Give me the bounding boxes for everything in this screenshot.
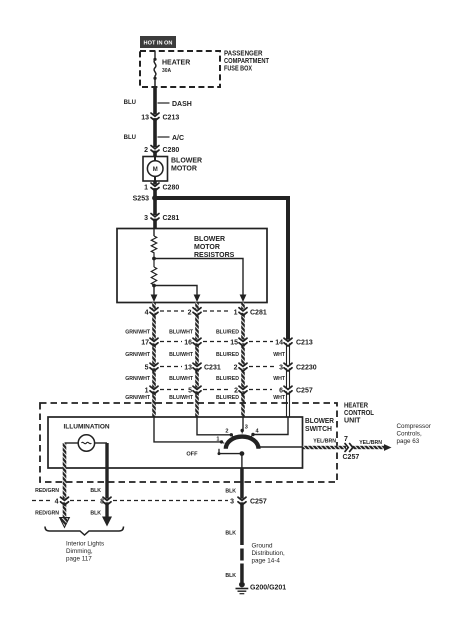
tick A/C — [158, 135, 185, 142]
svg-text:C257: C257 — [343, 454, 360, 461]
switch feed wire 3 — [242, 417, 244, 431]
svg-text:YEL/BRN: YEL/BRN — [313, 439, 336, 445]
svg-text:3: 3 — [230, 499, 234, 506]
svg-text:GRN/WHT: GRN/WHT — [125, 395, 151, 401]
switch feed wire 1 — [154, 417, 222, 442]
svg-text:A/C: A/C — [172, 135, 184, 142]
svg-text:C213: C213 — [163, 115, 180, 122]
arrow to compressor controls — [384, 444, 392, 451]
fuse HEATER 30A — [153, 51, 190, 87]
wire S253 to right and down (BLU thick) — [155, 198, 288, 342]
svg-text:PASSENGER: PASSENGER — [224, 51, 263, 58]
svg-text:3: 3 — [245, 425, 248, 431]
wire BLU fuse to blower motor — [153, 87, 157, 157]
svg-text:Compressor: Compressor — [397, 423, 431, 430]
svg-text:OFF: OFF — [186, 452, 198, 458]
switch feed wire 2 — [197, 417, 231, 435]
wire motor to S253 — [153, 181, 157, 198]
svg-text:HEATER: HEATER — [344, 403, 368, 410]
svg-text:BLU/WHT: BLU/WHT — [169, 330, 194, 336]
svg-text:C213: C213 — [296, 340, 313, 347]
svg-text:BLU/RED: BLU/RED — [216, 376, 239, 382]
connector 3 C281 — [144, 214, 179, 223]
svg-text:WHT: WHT — [273, 395, 286, 401]
connector row C281 — [145, 308, 267, 317]
svg-text:13: 13 — [184, 365, 192, 372]
ground wire segments — [240, 549, 244, 561]
svg-text:15: 15 — [230, 340, 238, 347]
arrow BLK down — [102, 517, 112, 527]
svg-text:C281: C281 — [250, 310, 267, 317]
svg-text:BLK: BLK — [225, 573, 236, 579]
svg-text:8: 8 — [100, 499, 104, 506]
wire labels row 3 — [125, 376, 286, 382]
svg-text:S253: S253 — [133, 196, 149, 203]
svg-text:5: 5 — [188, 388, 192, 395]
connector 13 C213 — [141, 113, 179, 122]
svg-text:C280: C280 — [163, 147, 180, 154]
svg-text:GRN/WHT: GRN/WHT — [125, 330, 151, 336]
svg-text:2: 2 — [234, 388, 238, 395]
connector 7 C257 (horizontal) — [343, 436, 360, 461]
svg-text:BLU: BLU — [124, 135, 136, 141]
label BLOWER SWITCH — [305, 418, 334, 433]
svg-text:MOTOR: MOTOR — [171, 166, 197, 173]
arrow RED/GRN down — [60, 518, 70, 528]
hot in on banner — [140, 36, 176, 48]
passenger compartment fuse box (dashed) — [140, 51, 270, 88]
svg-text:2: 2 — [144, 147, 148, 154]
wire BLK from switch pivot down — [241, 454, 243, 468]
resistor chain — [151, 229, 158, 302]
svg-text:4: 4 — [55, 499, 59, 506]
svg-text:BLU/RED: BLU/RED — [216, 330, 239, 336]
svg-text:C280: C280 — [163, 185, 180, 192]
svg-text:CONTROL: CONTROL — [344, 410, 375, 417]
wire BLK from bulb — [105, 443, 108, 518]
svg-text:BLOWER: BLOWER — [171, 158, 202, 165]
svg-text:3: 3 — [279, 365, 283, 372]
svg-text:RED/GRN: RED/GRN — [35, 511, 59, 517]
wire GRN/WHT column w1 — [152, 303, 156, 418]
svg-text:2: 2 — [234, 365, 238, 372]
svg-text:FUSE BOX: FUSE BOX — [224, 66, 252, 73]
wire BLU/WHT column w2 — [195, 303, 199, 418]
svg-text:M: M — [153, 167, 158, 173]
wire labels row 4 — [125, 395, 286, 401]
svg-text:7: 7 — [344, 436, 348, 443]
heater control unit dashed box — [40, 403, 375, 483]
illumination bulb — [65, 435, 108, 451]
svg-text:BLK: BLK — [225, 489, 236, 495]
svg-text:BLOWER: BLOWER — [305, 418, 334, 425]
svg-text:Distribution,: Distribution, — [252, 550, 285, 557]
heater control unit inner solid box — [48, 417, 303, 468]
svg-text:Controls,: Controls, — [397, 431, 422, 438]
svg-text:1: 1 — [216, 437, 219, 443]
svg-text:BLU/RED: BLU/RED — [216, 395, 239, 401]
blower switch S1 — [186, 425, 302, 458]
blower motor resistors box — [117, 229, 267, 303]
svg-text:HOT IN ON: HOT IN ON — [144, 40, 173, 46]
svg-text:17: 17 — [141, 340, 149, 347]
svg-text:COMPARTMENT: COMPARTMENT — [224, 58, 270, 65]
tick DASH — [158, 101, 192, 108]
svg-text:BLK: BLK — [90, 511, 101, 517]
wire S253 down to resistor box — [153, 198, 157, 229]
splice S253 — [133, 195, 158, 202]
labels below heater box — [35, 488, 236, 495]
text ground distribution — [252, 543, 285, 565]
wire labels row 1 — [125, 330, 239, 336]
svg-text:BLK: BLK — [225, 531, 236, 537]
svg-text:HEATER: HEATER — [162, 60, 190, 67]
svg-text:13: 13 — [141, 115, 149, 122]
svg-text:page 117: page 117 — [66, 556, 92, 563]
svg-text:UNIT: UNIT — [344, 418, 361, 425]
svg-text:1: 1 — [234, 310, 238, 317]
svg-text:WHT: WHT — [273, 352, 286, 358]
svg-text:BLU/WHT: BLU/WHT — [169, 376, 194, 382]
svg-text:C257: C257 — [250, 499, 267, 506]
svg-text:3: 3 — [144, 215, 148, 222]
svg-text:G200/G201: G200/G201 — [250, 585, 286, 592]
svg-text:C281: C281 — [163, 215, 180, 222]
svg-text:GRN/WHT: GRN/WHT — [125, 376, 151, 382]
svg-text:2: 2 — [188, 310, 192, 317]
svg-text:BLU/RED: BLU/RED — [216, 352, 239, 358]
svg-text:1: 1 — [144, 185, 148, 192]
resistor tap to pin 2 — [154, 286, 200, 303]
svg-text:C231: C231 — [204, 365, 221, 372]
svg-text:BLU/WHT: BLU/WHT — [169, 395, 194, 401]
svg-text:16: 16 — [184, 340, 192, 347]
svg-text:DASH: DASH — [172, 101, 192, 108]
svg-text:Dimming,: Dimming, — [66, 548, 93, 555]
switch feed wire 4 — [253, 417, 288, 435]
wire RED/GRN from bulb — [63, 443, 67, 518]
labels below connector — [35, 511, 101, 517]
connector row C213 — [141, 338, 313, 346]
svg-text:RED/GRN: RED/GRN — [35, 488, 59, 494]
connector row bottom C257 — [32, 497, 267, 505]
svg-text:6: 6 — [279, 388, 283, 395]
svg-text:BLOWER: BLOWER — [194, 236, 225, 243]
blower motor M1 — [143, 157, 202, 182]
svg-text:BLK: BLK — [90, 488, 101, 494]
svg-text:4: 4 — [145, 310, 149, 317]
wire YEL/BRN to compressor controls — [303, 439, 388, 450]
wire BLU/RED column w3 — [241, 303, 245, 418]
svg-text:WHT: WHT — [273, 376, 286, 382]
svg-text:2: 2 — [225, 429, 228, 435]
svg-text:page 14-4: page 14-4 — [252, 558, 281, 565]
text interior lights dimming — [66, 541, 104, 563]
svg-text:30A: 30A — [162, 68, 172, 74]
ground G200/G201 — [236, 582, 287, 594]
svg-text:1: 1 — [145, 388, 149, 395]
svg-text:SWITCH: SWITCH — [305, 426, 332, 433]
svg-text:YEL/BRN: YEL/BRN — [359, 440, 382, 446]
wire labels row 2 — [125, 352, 286, 358]
connector 2 C280 — [144, 146, 179, 155]
svg-text:C2230: C2230 — [296, 365, 317, 372]
connector 1 C280 — [144, 183, 179, 192]
svg-text:Interior Lights: Interior Lights — [66, 541, 104, 548]
svg-text:14: 14 — [275, 340, 283, 347]
connector row C231 and C2230 — [145, 363, 317, 371]
resistor tap to pin 1 — [154, 259, 246, 303]
brace interior lights — [45, 527, 124, 536]
svg-text:C257: C257 — [296, 388, 313, 395]
svg-text:GRN/WHT: GRN/WHT — [125, 352, 151, 358]
svg-text:5: 5 — [145, 365, 149, 372]
svg-text:BLU/WHT: BLU/WHT — [169, 352, 194, 358]
svg-text:page 63: page 63 — [397, 438, 420, 445]
svg-text:BLU: BLU — [124, 100, 136, 106]
svg-text:Ground: Ground — [252, 543, 274, 550]
svg-text:ILLUMINATION: ILLUMINATION — [64, 424, 110, 431]
wire WHT column w4 (hollow) — [287, 342, 290, 417]
svg-text:MOTOR: MOTOR — [194, 244, 220, 251]
connector row C257 — [145, 386, 313, 394]
